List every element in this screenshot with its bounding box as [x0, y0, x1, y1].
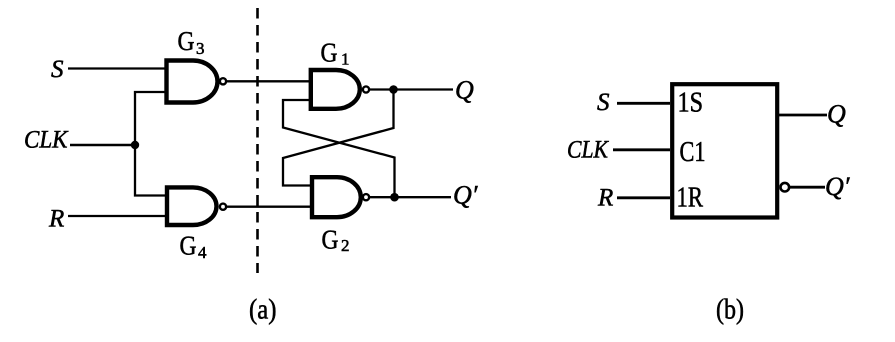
nand gate G1: [311, 70, 369, 109]
svg-text:G: G: [178, 26, 195, 56]
wire Q output: [369, 88, 453, 90]
wire G3 output to G1 input: [226, 80, 313, 82]
svg-text:G: G: [322, 225, 339, 255]
wire Q' from block: [790, 186, 825, 189]
svg-text:1S: 1S: [678, 88, 704, 119]
wire CLK to block: [613, 148, 670, 151]
block symbol U1 body: [672, 84, 777, 217]
nand gate G2: [312, 177, 369, 217]
node Q' junction: [390, 193, 399, 202]
wire R input: [68, 215, 170, 217]
nand gate G3: [167, 61, 227, 103]
svg-text:R: R: [48, 206, 64, 233]
bubble on Q' pin: [781, 183, 790, 192]
svg-text:CLK: CLK: [24, 127, 69, 154]
svg-text:R: R: [597, 185, 613, 212]
svg-text:(a): (a): [249, 295, 277, 326]
nand gate G4: [167, 187, 226, 225]
svg-text:G: G: [180, 231, 197, 261]
wire feedback Q' to G1: [283, 100, 395, 197]
wire Q' output: [369, 196, 451, 198]
wire S input: [68, 67, 170, 69]
svg-text:CLK: CLK: [567, 137, 609, 164]
wire R to block: [617, 196, 670, 199]
svg-text:1: 1: [341, 50, 350, 69]
svg-text:S: S: [51, 56, 64, 83]
svg-text:Q′: Q′: [825, 172, 850, 201]
node Q junction: [389, 85, 398, 94]
wire Q from block: [779, 114, 827, 117]
svg-text:Q′: Q′: [453, 181, 478, 210]
wire G4 output to G2 input: [226, 206, 314, 208]
svg-text:1R: 1R: [677, 183, 704, 214]
wire S to block: [617, 102, 670, 105]
svg-text:4: 4: [198, 243, 207, 262]
svg-text:G: G: [321, 38, 338, 68]
svg-text:2: 2: [341, 236, 350, 255]
svg-text:C1: C1: [680, 137, 706, 168]
wire CLK vertical branch: [135, 92, 170, 196]
svg-text:Q: Q: [827, 100, 846, 129]
svg-text:S: S: [597, 89, 610, 116]
wire feedback Q to G2: [283, 90, 394, 186]
node CLK junction: [131, 141, 139, 149]
svg-text:3: 3: [196, 39, 205, 58]
wire CLK input: [70, 144, 135, 147]
dashed partition line: [256, 8, 259, 273]
svg-text:Q: Q: [455, 76, 474, 105]
svg-text:(b): (b): [716, 295, 744, 326]
